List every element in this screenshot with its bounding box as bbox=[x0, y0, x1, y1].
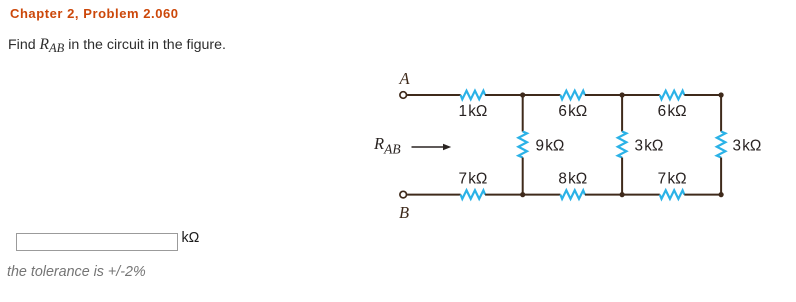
svg-text:3 kΩ: 3 kΩ bbox=[635, 137, 664, 154]
tolerance note bbox=[7, 264, 146, 280]
svg-text:A: A bbox=[398, 69, 410, 88]
svg-text:6 kΩ: 6 kΩ bbox=[658, 103, 687, 120]
arrow pointing toward network bbox=[412, 144, 452, 151]
svg-text:7 kΩ: 7 kΩ bbox=[458, 171, 487, 188]
wire: vertical lower segment, branch 3 bbox=[720, 158, 722, 195]
wire: A terminal to 1k resistor bbox=[407, 94, 461, 96]
junction dot: top node 2 bbox=[620, 92, 625, 97]
resistor 3 kOhm (middle) (vertical) bbox=[618, 132, 627, 158]
terminal B (open circle) bbox=[400, 191, 407, 198]
svg-text:1 kΩ: 1 kΩ bbox=[458, 103, 487, 120]
wire: vertical lower segment, branch 1 bbox=[522, 158, 524, 195]
wire: 6k resistor to second 6k resistor (through node 2) bbox=[585, 94, 660, 96]
svg-text:9 kΩ: 9 kΩ bbox=[536, 137, 565, 154]
svg-text:RAB: RAB bbox=[373, 134, 401, 156]
wire: 8k resistor to second 7k resistor (through node 4) bbox=[585, 194, 660, 196]
wire: 7k resistor to 8k resistor (through node 3) bbox=[485, 194, 560, 196]
junction dot: bottom right corner node bbox=[719, 192, 724, 197]
answer input box bbox=[16, 233, 178, 251]
resistor 8 kOhm (bottom middle, horizontal) bbox=[560, 190, 584, 199]
terminal A (open circle) bbox=[400, 92, 407, 99]
junction dot: top node 1 bbox=[520, 92, 525, 97]
wire: vertical lower segment, branch 2 bbox=[621, 158, 623, 195]
wire: top right corner bbox=[684, 94, 721, 96]
unit label kOhm bbox=[182, 230, 200, 246]
svg-text:B: B bbox=[399, 203, 409, 222]
problem title bbox=[10, 6, 179, 21]
resistor 9 kOhm (vertical) bbox=[518, 132, 527, 158]
junction dot: bottom node 4 bbox=[620, 192, 625, 197]
svg-text:7 kΩ: 7 kΩ bbox=[658, 170, 687, 187]
wire: B terminal to 7k resistor bbox=[407, 194, 461, 196]
wire: vertical upper segment, branch 2 bbox=[621, 95, 623, 132]
junction dot: bottom node 3 bbox=[520, 192, 525, 197]
resistor 7 kOhm (bottom left, horizontal) bbox=[461, 190, 486, 199]
resistor 7 kOhm (bottom right, horizontal) bbox=[660, 190, 684, 199]
svg-text:3 kΩ: 3 kΩ bbox=[733, 137, 762, 154]
problem statement bbox=[8, 36, 226, 54]
svg-text:8 kΩ: 8 kΩ bbox=[558, 171, 587, 188]
junction dot: top right corner node bbox=[719, 92, 724, 97]
wire: 1k resistor to 6k resistor (through node 1) bbox=[485, 94, 560, 96]
wire: vertical upper segment, branch 1 bbox=[522, 95, 524, 132]
resistor 1 kOhm (top left, horizontal) bbox=[461, 91, 486, 100]
svg-text:6 kΩ: 6 kΩ bbox=[558, 103, 587, 120]
resistor 3 kOhm (right) (vertical) bbox=[717, 132, 726, 158]
resistor 6 kOhm (top right, horizontal) bbox=[660, 91, 684, 100]
resistor 6 kOhm (top middle, horizontal) bbox=[560, 91, 584, 100]
wire: bottom right corner bbox=[684, 194, 721, 196]
wire: vertical upper segment, branch 3 bbox=[720, 95, 722, 132]
